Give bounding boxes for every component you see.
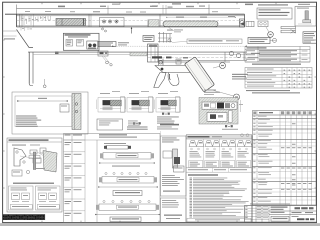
lower view note box right bbox=[168, 39, 242, 44]
option sub-box A bbox=[9, 186, 34, 210]
detail cluster D bbox=[155, 91, 181, 129]
warning note box bbox=[257, 8, 292, 19]
page edge shadow bottom bbox=[0, 223, 320, 226]
leader pins below sight bbox=[102, 27, 107, 32]
trigger guard loop bbox=[168, 73, 179, 86]
stock profile hatched bbox=[72, 94, 81, 130]
small label box bbox=[143, 36, 154, 42]
compatibility matrix table bbox=[245, 68, 312, 89]
balloon 1 bbox=[266, 27, 273, 37]
overall dimension line bbox=[17, 3, 210, 14]
maintenance note box bbox=[63, 33, 99, 50]
parts list table bbox=[253, 111, 317, 206]
pins below clamp bbox=[102, 56, 112, 66]
upper receiver rail side view bbox=[5, 14, 245, 27]
balloon 3 bbox=[212, 90, 240, 100]
mount option cells bbox=[189, 139, 252, 168]
dimension text top right bbox=[209, 4, 288, 9]
notes header row bbox=[186, 168, 252, 172]
stock detail box bbox=[295, 7, 316, 27]
grip note box bbox=[248, 38, 277, 44]
bracket joint detail bbox=[158, 30, 173, 43]
rail right end block bbox=[240, 19, 245, 27]
buttstock post bbox=[29, 52, 33, 85]
safety footnotes bbox=[246, 90, 300, 93]
trigger bbox=[168, 74, 171, 80]
dotted dimension line mid bbox=[112, 45, 247, 47]
general safety table bbox=[245, 47, 310, 63]
scope ring circles bbox=[225, 51, 244, 62]
rail joint hatch bbox=[149, 20, 160, 27]
rail left end cap bbox=[20, 14, 51, 27]
option sub-box B bbox=[36, 186, 61, 210]
recoil rod assembly bbox=[281, 27, 296, 34]
vertical dimension stack bbox=[163, 5, 173, 14]
lower hatched segment bbox=[130, 52, 147, 56]
exploded parts drawing bbox=[12, 145, 57, 177]
lower view rail body bbox=[28, 52, 252, 62]
accessory panel bbox=[7, 138, 62, 212]
variant row 1 figure bbox=[99, 143, 155, 167]
diagonal support arm bbox=[3, 30, 33, 48]
caption under safety table bbox=[252, 64, 301, 65]
sheet number top right bbox=[298, 4, 310, 5]
buffer component bbox=[241, 21, 255, 26]
balloon 2 bbox=[213, 63, 226, 69]
handguard slot hatched bbox=[148, 14, 235, 27]
left frame ledger lines bbox=[3, 35, 17, 37]
extra dim marks above rail bbox=[25, 5, 218, 12]
stock detail panel bbox=[12, 92, 88, 134]
variant row 3 figure bbox=[95, 200, 160, 221]
magazine tilted bbox=[184, 57, 214, 92]
adapter panel lower bbox=[161, 198, 187, 223]
panel divider lines bbox=[161, 131, 253, 222]
stock panel small box bbox=[60, 104, 69, 112]
pin detail below post bbox=[43, 79, 46, 88]
filename stamp bar bbox=[3, 214, 46, 220]
leader arrow to detail bbox=[131, 27, 133, 34]
pistol grip bbox=[154, 73, 166, 88]
detail cluster C bbox=[126, 91, 154, 126]
detail cluster B bbox=[97, 91, 148, 130]
table footer line bbox=[250, 203, 290, 206]
bolt carrier block bbox=[56, 14, 91, 27]
scope mount panel header bbox=[186, 135, 252, 222]
slot dimension line bbox=[166, 17, 236, 18]
panel caption line bbox=[13, 183, 54, 184]
variant row 2 figure bbox=[98, 172, 158, 195]
title block bbox=[245, 206, 317, 223]
variants table bbox=[64, 134, 161, 223]
balloons above mount panel bbox=[241, 134, 249, 137]
magazine note text bbox=[232, 74, 248, 80]
lower view label box left bbox=[98, 42, 129, 47]
pivot pin bbox=[161, 68, 164, 71]
leader below slot bbox=[168, 27, 183, 32]
note box right bbox=[303, 32, 317, 43]
trigger plate bbox=[155, 66, 193, 73]
general notes block bbox=[187, 174, 251, 222]
detail cluster E hatched block bbox=[199, 90, 243, 130]
trigger housing bracket bbox=[159, 59, 182, 66]
knurled adjustment row bbox=[55, 51, 80, 54]
dimension arrow lower right bbox=[248, 53, 260, 57]
rail clamp small bbox=[98, 51, 108, 56]
marks below rail left bbox=[21, 27, 32, 31]
receiver upright lower view bbox=[148, 44, 159, 62]
adapter panel upper bbox=[161, 136, 187, 196]
spring assembly bbox=[258, 21, 268, 27]
stock panel text block bbox=[16, 116, 41, 127]
trigger group rail mounts bbox=[152, 56, 188, 58]
sight component with pins bbox=[93, 11, 132, 26]
